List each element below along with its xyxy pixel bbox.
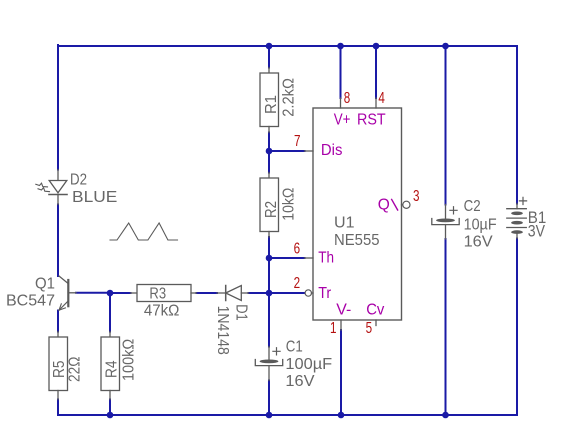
wire: R5 bottom + bottom ground rail + B1 bottom riser	[58, 239, 517, 416]
svg-text:Q1: Q1	[35, 275, 55, 292]
wire: C2 bottom to ground rail	[445, 239, 447, 415]
svg-text:7: 7	[294, 133, 301, 150]
svg-text:BLUE: BLUE	[72, 189, 117, 206]
wire: D1 anode to node Tr column	[249, 292, 270, 294]
wire: Q1 base to base node	[76, 292, 110, 294]
svg-text:U1: U1	[334, 214, 355, 231]
svg-text:3: 3	[413, 188, 420, 205]
wire: rail to pin 4	[375, 46, 377, 98]
triangle waveform decoration	[110, 223, 178, 240]
resistor R1 body	[260, 68, 279, 133]
svg-text:R4: R4	[104, 360, 121, 378]
svg-text:16V: 16V	[464, 233, 494, 250]
wire: top power rail	[58, 45, 517, 47]
junction node at C2 top	[442, 43, 449, 50]
svg-text:V+: V+	[334, 112, 351, 129]
svg-text:NE555: NE555	[334, 232, 380, 249]
svg-text:47kΩ: 47kΩ	[144, 303, 180, 320]
wire: rail to pin 8	[340, 46, 342, 98]
wire: rail to C2 top	[445, 46, 447, 205]
pin 2 stub	[312, 292, 314, 294]
svg-text:RST: RST	[357, 112, 386, 129]
junction node Dis (R1/R2/pin7)	[266, 148, 273, 155]
diode D1 symbol	[217, 286, 249, 301]
resistor R3 body	[131, 285, 197, 302]
svg-text:22Ω: 22Ω	[67, 357, 84, 382]
pin 1 stub	[340, 320, 342, 330]
wire: R2 bottom through Th/Tr nodes to C1 top	[268, 237, 270, 347]
wire: node Tr to pin 2 bubble	[269, 292, 305, 294]
capacitor C2 symbol	[432, 205, 459, 240]
LED D2 light arrow 2	[38, 188, 50, 192]
wire: LED cathode to Q1 collector	[57, 205, 59, 277]
svg-text:5: 5	[366, 320, 373, 337]
svg-text:Dis: Dis	[321, 142, 343, 159]
pin 5 stub	[375, 320, 377, 326]
junction node base (Q1/R3/R4)	[107, 290, 114, 297]
svg-text:Q: Q	[378, 197, 390, 214]
pin 7 stub	[305, 150, 314, 152]
svg-text:V-: V-	[336, 302, 351, 319]
svg-text:C1: C1	[286, 339, 303, 356]
svg-text:1N4148: 1N4148	[214, 306, 231, 355]
svg-text:16V: 16V	[285, 373, 315, 390]
svg-text:BC547: BC547	[6, 293, 55, 310]
wire: Q1 base node to R3 left	[110, 292, 131, 294]
svg-text:R2: R2	[263, 201, 280, 218]
svg-text:R1: R1	[263, 95, 280, 114]
wire: B1 top riser	[516, 46, 518, 204]
resistor R5 body	[49, 332, 68, 400]
LED D2 symbol	[49, 170, 67, 205]
wire: node Th to pin 6	[269, 257, 305, 259]
svg-text:2: 2	[294, 275, 301, 292]
junction node Th (R2/pin6)	[266, 255, 273, 262]
junction node at R1 top	[266, 43, 273, 50]
wire: R1 bottom to R2 top (node Dis)	[268, 133, 270, 173]
wire: rail to R1 top	[268, 46, 270, 68]
wire: Q1 emitter to R5 top	[57, 311, 59, 332]
resistor R2 body	[260, 173, 279, 238]
LED D2 light arrow 1	[36, 183, 48, 187]
junction node at pin 8	[337, 43, 344, 50]
junction node R4 bottom on ground rail	[107, 412, 114, 419]
pin 3 bubble	[403, 201, 410, 208]
svg-text:D2: D2	[70, 171, 87, 188]
junction node pin1 on ground rail	[338, 412, 345, 419]
pin 2 bubble	[305, 290, 311, 296]
battery B1 symbol	[507, 197, 527, 238]
svg-text:2.2kΩ: 2.2kΩ	[281, 78, 298, 117]
svg-text:R3: R3	[149, 285, 166, 302]
svg-text:4: 4	[378, 90, 385, 107]
wire: R3 right to D1 cathode	[197, 292, 218, 294]
wire: node Dis to pin 7	[269, 150, 305, 152]
junction node Tr (D1/pin2/C1)	[266, 290, 273, 297]
svg-text:Tr: Tr	[318, 285, 331, 302]
svg-text:Cv: Cv	[366, 302, 384, 319]
wire: R4 bottom to ground rail	[109, 400, 111, 416]
junction node C1 bottom on ground rail	[266, 412, 273, 419]
resistor R4 body	[101, 332, 120, 400]
svg-text:1: 1	[330, 320, 337, 337]
capacitor C1 symbol	[255, 347, 282, 381]
op-amp style IC body U1 (NE555)	[313, 108, 402, 320]
svg-text:10kΩ: 10kΩ	[281, 188, 298, 221]
wire: left rail top (rail to LED anode)	[57, 45, 59, 170]
transistor Q1 symbol	[59, 276, 76, 310]
wire: pin 1 to ground rail	[340, 330, 342, 415]
svg-text:C2: C2	[464, 198, 481, 215]
svg-text:100µF: 100µF	[285, 356, 332, 373]
svg-text:100kΩ: 100kΩ	[121, 339, 138, 381]
pin 3 stub	[402, 204, 403, 206]
svg-text:R5: R5	[51, 361, 68, 379]
svg-text:Th: Th	[318, 250, 334, 267]
svg-text:3V: 3V	[528, 223, 545, 241]
svg-text:D1: D1	[233, 304, 250, 321]
svg-text:8: 8	[344, 90, 351, 107]
junction node at pin 4	[373, 43, 380, 50]
svg-text:10µF: 10µF	[464, 217, 497, 234]
svg-text:6: 6	[294, 241, 301, 258]
pin 8 stub	[340, 98, 342, 108]
junction node C2 bottom on ground rail	[442, 412, 449, 419]
pin 6 stub	[305, 257, 314, 259]
wire: base node down to R4 top	[109, 293, 111, 332]
wire: C1 bottom to ground rail	[268, 381, 270, 416]
pin 4 stub	[375, 98, 377, 108]
